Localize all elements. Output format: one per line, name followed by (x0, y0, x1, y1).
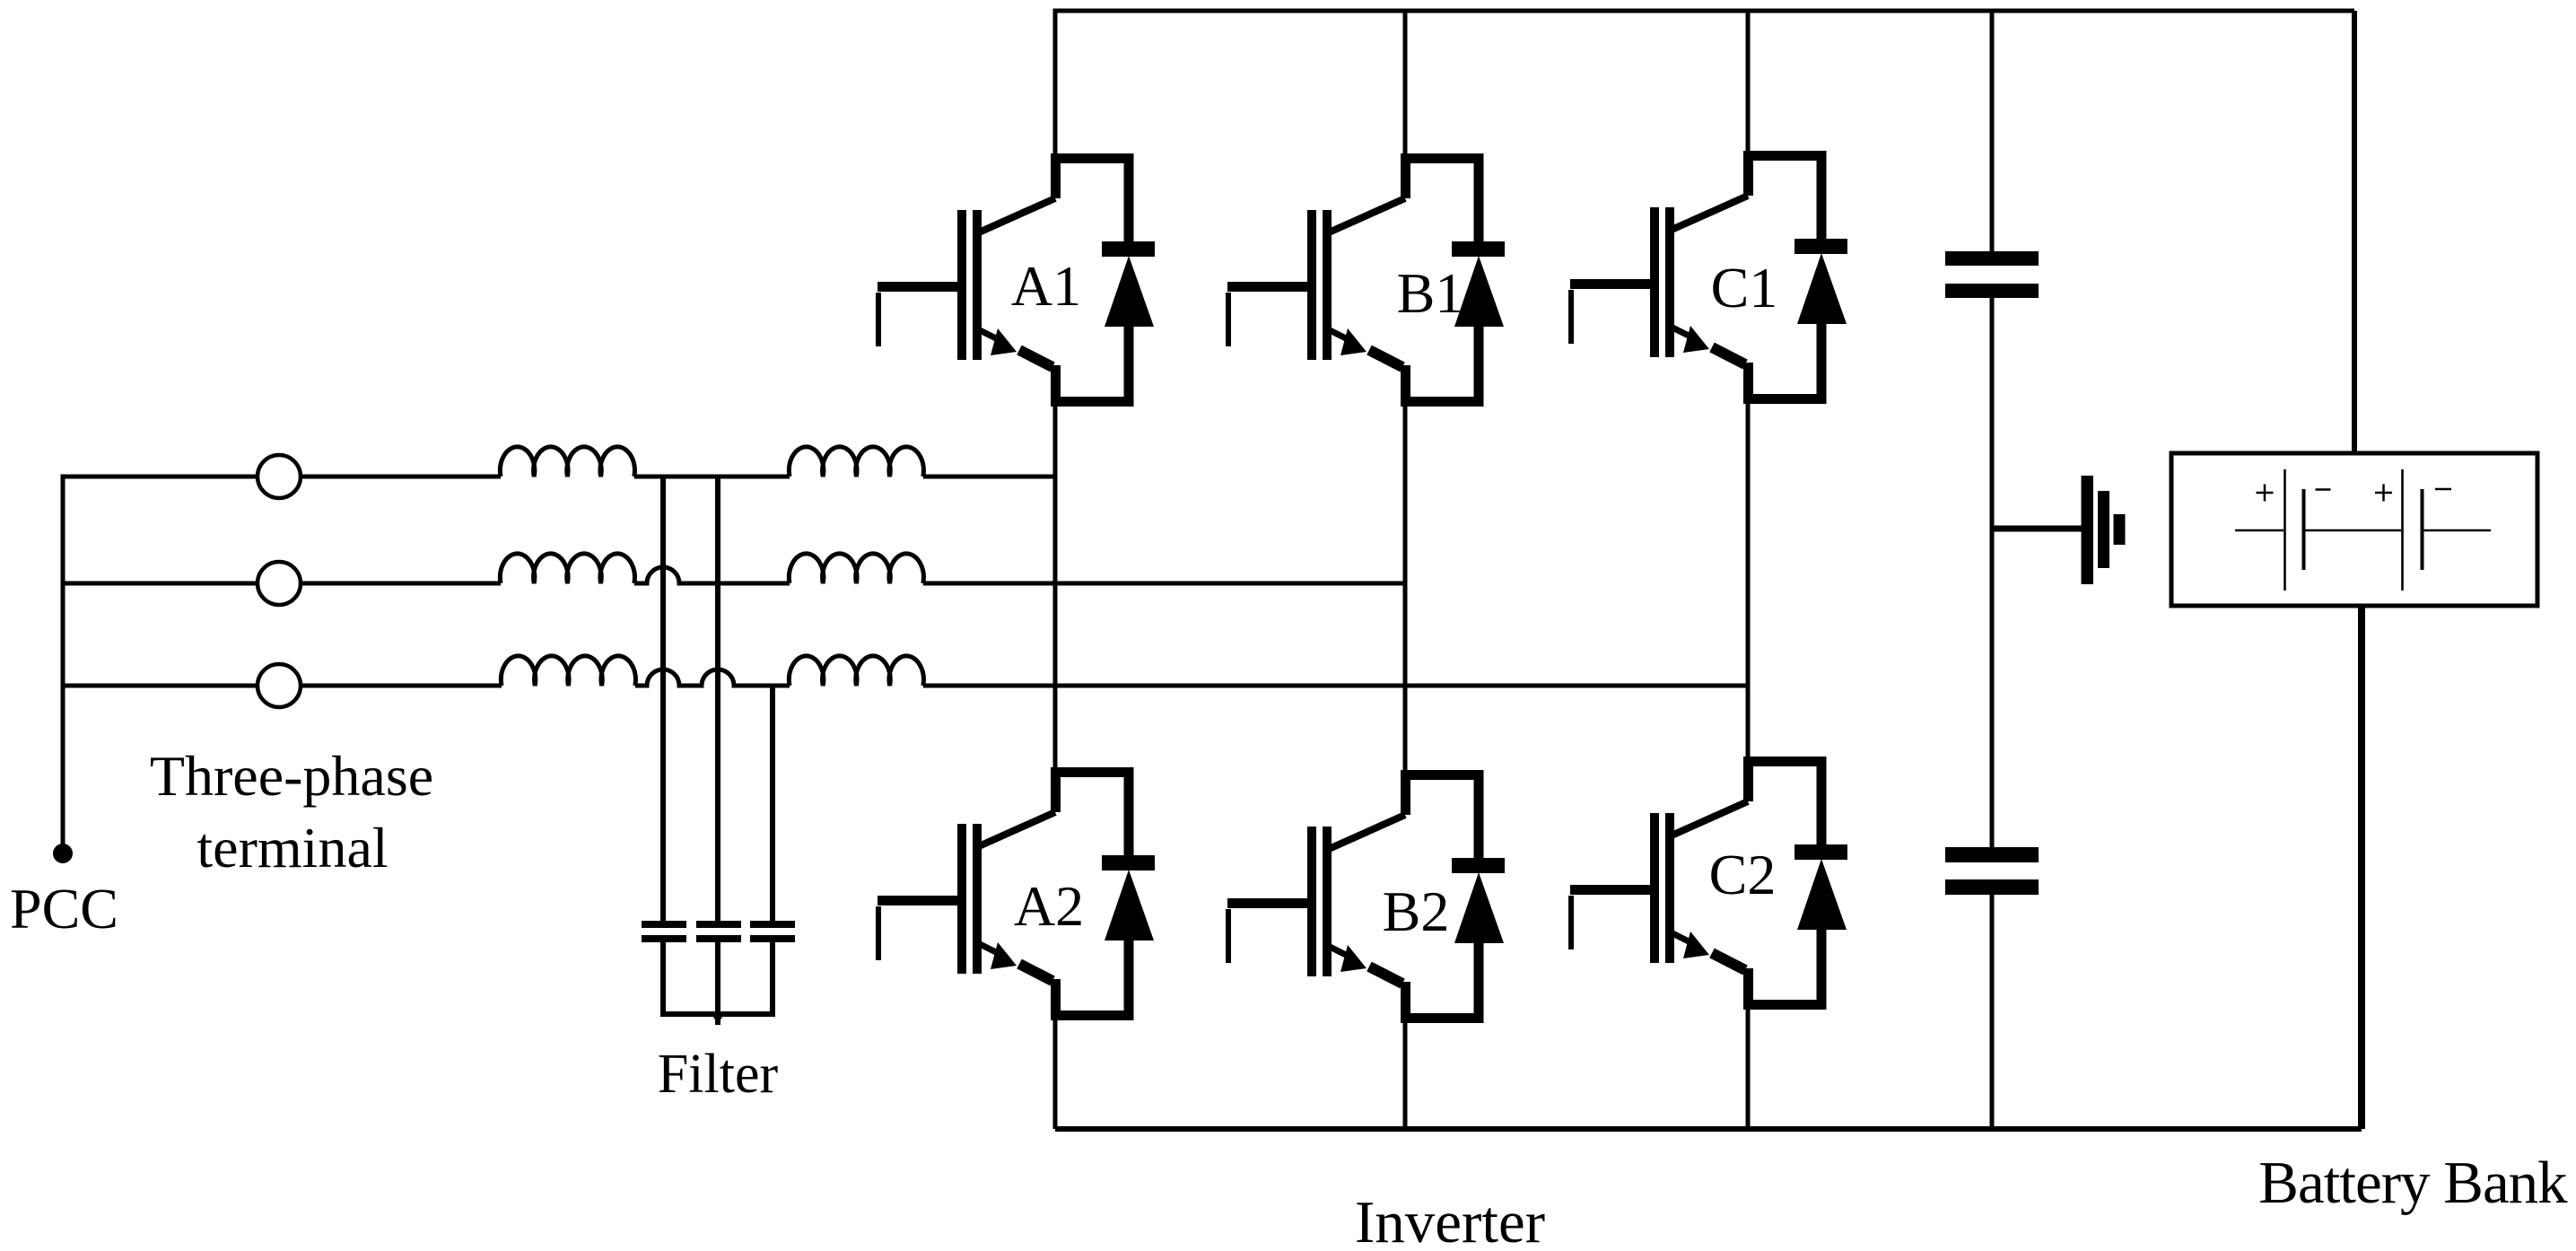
wire cap 3 lower lead (770, 942, 775, 1014)
svg-text:A1: A1 (1011, 254, 1081, 318)
wire cap 1 lower lead (660, 942, 666, 1014)
inductor L1b (500, 554, 634, 583)
svg-text:PCC: PCC (10, 877, 118, 940)
wire leg B upper (1403, 9, 1408, 154)
label cell 1 minus (2316, 488, 2331, 491)
wire leg A middle (1053, 406, 1058, 767)
wire phase A segment left (61, 475, 258, 479)
wire DC top bus (1055, 9, 2354, 13)
wire battery bottom lead (2358, 606, 2365, 1129)
wire leg C middle (1746, 403, 1751, 757)
svg-text:terminal: terminal (196, 816, 388, 879)
wire cap 2 lower lead (715, 942, 720, 1025)
wire leg B lower (1403, 1021, 1408, 1129)
battery bank box (2171, 453, 2537, 606)
wire DC bottom bus (1055, 1126, 2362, 1132)
svg-text:Battery Bank: Battery Bank (2258, 1150, 2568, 1216)
inductor L1a (500, 447, 634, 477)
wire phase B to inverter leg B (923, 582, 1405, 586)
wire phase C with hops over cap legs 1 and 2 (635, 669, 790, 686)
node PCC dot (53, 844, 73, 863)
wire DC link leg upper (1990, 11, 1995, 251)
label cell 2 minus (2435, 488, 2451, 491)
label cell 1 plus (2257, 485, 2274, 502)
wire left vertical bus to PCC (61, 477, 65, 853)
svg-text:B1: B1 (1397, 261, 1464, 325)
wire battery internal middle (2305, 529, 2401, 532)
terminal circle phase B (258, 562, 301, 605)
transistor C2 IGBT with diode (1570, 757, 1847, 1005)
wire phase B to inductor (301, 582, 501, 586)
wire filter neutral bus (660, 1011, 775, 1017)
capacitor Cf3 (750, 921, 795, 942)
transistor C1 IGBT with diode (1570, 151, 1847, 399)
ground (2082, 476, 2126, 584)
wire leg B middle (1403, 406, 1408, 770)
wire ground stub (1992, 526, 2082, 532)
wire filter cap leg 3 (770, 686, 775, 921)
wire phase A mid (634, 475, 790, 479)
capacitor Cf2 (696, 921, 741, 942)
battery cell 1 (2285, 469, 2304, 591)
wire phase B segment left (61, 582, 258, 586)
wire filter cap leg 1 (660, 477, 666, 921)
wire battery internal right (2423, 529, 2491, 532)
svg-text:A2: A2 (1014, 874, 1084, 938)
capacitor Cdc1 (1945, 251, 2039, 298)
transistor B1 IGBT with diode (1227, 153, 1505, 402)
wire phase C to inductor (301, 684, 502, 688)
inductor L2a (789, 447, 923, 477)
wire leg C upper (1746, 9, 1751, 152)
capacitor Cf1 (642, 921, 686, 942)
inductor L2c (789, 656, 923, 686)
wire phase B with hop over cap leg 1 (634, 567, 790, 583)
svg-text:Filter: Filter (658, 1044, 779, 1105)
wire battery top lead (2352, 11, 2357, 453)
svg-text:Inverter: Inverter (1355, 1189, 1545, 1251)
transistor A1 IGBT with diode (878, 153, 1155, 402)
wire battery internal left (2235, 529, 2283, 532)
wire phase A to inverter leg A (923, 475, 1055, 479)
wire phase A to inductor (301, 475, 501, 479)
inductor L2b (789, 554, 923, 583)
wire phase C to inverter leg C (923, 684, 1748, 688)
battery cell 2 (2403, 469, 2423, 591)
transistor A2 IGBT with diode (878, 767, 1155, 1016)
junction filter neutral (713, 1011, 722, 1020)
wire leg A upper (1053, 9, 1058, 154)
wire DC link leg lower (1990, 895, 1995, 1129)
transistor B2 IGBT with diode (1227, 770, 1505, 1019)
svg-text:C1: C1 (1711, 256, 1778, 319)
svg-text:C2: C2 (1709, 843, 1777, 906)
terminal circle phase C (258, 664, 301, 707)
capacitor Cdc2 (1945, 847, 2039, 895)
label cell 2 plus (2375, 485, 2392, 502)
inductor L1c (501, 656, 635, 686)
wire leg A lower (1053, 1019, 1058, 1129)
terminal circle phase A (258, 455, 301, 498)
wire filter cap leg 2 (715, 477, 720, 921)
svg-text:Three-phase: Three-phase (150, 744, 433, 808)
svg-text:B2: B2 (1383, 879, 1450, 943)
wire phase C segment left (61, 684, 258, 688)
wire leg C lower (1746, 1008, 1751, 1129)
wire DC link leg middle (1990, 298, 1995, 847)
